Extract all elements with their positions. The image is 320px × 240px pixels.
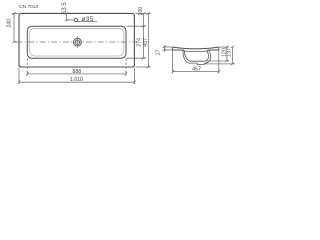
- dimension 53.5: [65, 12, 74, 21]
- section view: drain stub: [197, 63, 204, 64]
- svg-text:457: 457: [192, 66, 201, 72]
- svg-text:CN 7013: CN 7013: [19, 4, 38, 10]
- svg-text:274: 274: [136, 38, 142, 47]
- svg-text:ø35: ø35: [82, 16, 94, 23]
- bowl inner offset line: [29, 28, 123, 56]
- dimension 120: [206, 46, 229, 62]
- dimension 1.010: [18, 68, 136, 84]
- drain vertical centerline dashes: [76, 37, 78, 48]
- dimension 457 (section view): [172, 51, 220, 74]
- label ø35 with leader: [77, 16, 97, 23]
- dimension 137: [205, 46, 235, 65]
- svg-text:457: 457: [143, 38, 149, 47]
- dimension 457 (plan view): [136, 12, 151, 68]
- basin outer contour (plan view): [19, 13, 134, 67]
- dimension 17: [163, 45, 172, 52]
- svg-text:53.5: 53.5: [61, 2, 68, 15]
- section view: right rim flange underside: [207, 47, 219, 52]
- svg-text:137: 137: [226, 48, 232, 57]
- drain outer circle: [74, 38, 82, 46]
- dimension 240: [12, 12, 19, 43]
- svg-text:100: 100: [138, 7, 144, 16]
- dimension 274: [127, 26, 146, 59]
- dimension 100: [127, 12, 151, 27]
- section view: rim top edge (shallow sag across): [173, 47, 219, 49]
- section view: left rim flange underside: [173, 47, 185, 52]
- basin bowl rim (plan view): [27, 26, 126, 58]
- section view: far rim lower sag line: [184, 50, 207, 53]
- svg-text:240: 240: [6, 19, 12, 28]
- faucet hole: [74, 18, 77, 21]
- horizontal centerline (dashed): [17, 41, 138, 43]
- section view: bowl inner profile: [184, 52, 208, 61]
- drain inner circle: [75, 40, 79, 44]
- section view: bowl outer shell: [183, 50, 211, 63]
- svg-text:1.010: 1.010: [70, 77, 83, 83]
- dimension 888: [26, 59, 127, 76]
- svg-text:888: 888: [72, 69, 81, 75]
- svg-text:17: 17: [156, 49, 162, 55]
